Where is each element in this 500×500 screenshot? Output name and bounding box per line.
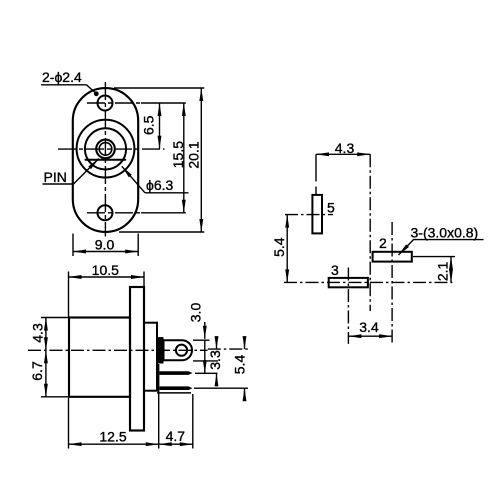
- pin1 extension: [195, 372, 218, 374]
- extension line oval bottom: [119, 231, 204, 233]
- svg-text:5: 5: [327, 200, 335, 216]
- dimension 4.7: [159, 443, 193, 445]
- dimension 6.5: [159, 103, 161, 149]
- pad5 horizontal centerline: [285, 214, 333, 216]
- extension lines 12.5 / 4.7: [68, 398, 70, 449]
- body rectangle: [69, 318, 130, 397]
- extension lines for 9.0: [72, 234, 74, 257]
- extension pad2 right: [413, 256, 455, 258]
- back plate: [144, 323, 157, 391]
- svg-text:10.5: 10.5: [92, 262, 119, 278]
- svg-text:3.0: 3.0: [188, 303, 204, 323]
- svg-text:4.3: 4.3: [335, 140, 355, 156]
- extension line oval top: [114, 87, 204, 89]
- vertical centerline: [104, 82, 106, 237]
- svg-text:2: 2: [379, 235, 387, 251]
- svg-text:15.5: 15.5: [170, 141, 186, 168]
- dimension 3.3: [216, 338, 218, 349]
- extension lines 10.5: [68, 272, 70, 317]
- insulator bush (black): [157, 337, 164, 363]
- bottom mounting hole: [98, 205, 113, 220]
- chord line in bezel: [86, 159, 126, 161]
- pin outer circle: [96, 140, 115, 159]
- svg-text:3.4: 3.4: [359, 319, 379, 335]
- svg-text:5.4: 5.4: [232, 355, 248, 375]
- pad 5: [312, 195, 322, 234]
- extension lines left 4.3/6.7: [41, 317, 68, 319]
- dimension 5.4 side: [244, 338, 246, 349]
- svg-text:ϕ6.3: ϕ6.3: [146, 177, 174, 193]
- dimension 5.4: [286, 215, 288, 283]
- extension pad5 top short segment: [315, 187, 317, 195]
- centerline extension right: [208, 348, 248, 350]
- bottom hole centerline / extension: [87, 212, 141, 214]
- dimension 3.0: [204, 322, 206, 339]
- pin 1: [160, 371, 193, 375]
- horizontal centerline center: [58, 148, 165, 150]
- svg-text:9.0: 9.0: [95, 237, 115, 253]
- flange rectangle: [130, 287, 144, 431]
- dimension 12.5: [69, 443, 159, 445]
- svg-text:5.4: 5.4: [271, 237, 287, 257]
- pin inner circle: [99, 143, 112, 156]
- bottom hole extension line right: [141, 212, 186, 214]
- svg-text:4.3: 4.3: [30, 323, 46, 343]
- dimension 9.0: [73, 251, 138, 253]
- solder lug: [164, 340, 193, 360]
- extension pad5 top: [315, 154, 317, 181]
- dimension 3.4: [348, 335, 392, 337]
- pin2 extension: [194, 387, 248, 389]
- pin 3 hidden line: [157, 392, 191, 394]
- flange stadium outline: [73, 88, 138, 232]
- lug hole: [176, 345, 187, 356]
- svg-text:3: 3: [331, 262, 339, 278]
- svg-text:3.3: 3.3: [207, 350, 223, 370]
- dimension 2.1: [450, 257, 452, 283]
- svg-text:2-ϕ2.4: 2-ϕ2.4: [42, 69, 82, 85]
- pad 2: [373, 252, 412, 262]
- dimension 4.3 top: [316, 153, 370, 155]
- svg-text:PIN: PIN: [44, 169, 67, 185]
- extension lug top: [193, 339, 210, 341]
- pad2 vertical centerline: [391, 222, 393, 344]
- svg-text:6.5: 6.5: [141, 115, 157, 135]
- side view centerline: [28, 349, 208, 351]
- top hole centerline / extension: [87, 102, 141, 104]
- dimension 10.5: [69, 276, 145, 278]
- bezel circle phi6.3: [85, 128, 126, 169]
- dimension 20.1: [200, 88, 202, 232]
- main vertical axis: [369, 154, 371, 311]
- svg-text:2.1: 2.1: [435, 261, 451, 281]
- svg-text:3-(3.0x0.8): 3-(3.0x0.8): [411, 225, 479, 241]
- svg-text:12.5: 12.5: [99, 429, 126, 445]
- dimension 6.7: [45, 350, 47, 397]
- pad 3: [329, 278, 368, 287]
- svg-text:4.7: 4.7: [166, 428, 186, 444]
- top mounting hole: [98, 96, 113, 111]
- body circle: [77, 120, 135, 178]
- dimension 15.5: [183, 103, 185, 213]
- extension lug bottom: [193, 360, 218, 362]
- pad3 horizontal centerline: [284, 281, 452, 283]
- pad3 vertical centerline: [347, 268, 349, 344]
- pin 2: [160, 386, 193, 390]
- svg-text:20.1: 20.1: [185, 141, 201, 168]
- svg-text:6.7: 6.7: [29, 361, 45, 381]
- dimension 4.3: [45, 318, 47, 351]
- top hole extension line right: [141, 102, 186, 104]
